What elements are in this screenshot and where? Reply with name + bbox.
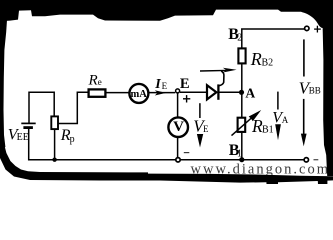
voltmeter V <box>168 117 188 137</box>
bottom rail <box>29 129 304 160</box>
svg-text:R: R <box>88 72 98 88</box>
scan artifact: top torn black band <box>0 0 333 28</box>
minus VE <box>184 152 190 153</box>
RB1 arrow <box>232 118 253 136</box>
bottom-right terminal ring <box>304 158 308 162</box>
minus bottom right <box>314 159 319 160</box>
wire node A up through RB2 to top rail and terminal <box>241 64 243 92</box>
svg-text:R: R <box>250 49 262 69</box>
svg-text:E: E <box>180 76 190 92</box>
battery VEE long plate <box>21 122 35 124</box>
diode cathode bar <box>217 84 219 99</box>
wire node E down to voltmeter <box>177 93 179 117</box>
wire RB1 bottom to bottom rail <box>241 133 243 160</box>
arrow above diode <box>200 69 226 72</box>
diode: triangle <box>207 85 216 99</box>
resistor RB1 (variable) <box>238 118 246 132</box>
junction dot B1-rail <box>239 157 244 162</box>
wire node E to diode <box>180 91 208 93</box>
svg-text:mA: mA <box>131 89 148 100</box>
resistor Rp <box>51 116 58 129</box>
wire diode cathode to node A <box>219 91 241 93</box>
svg-text:2: 2 <box>237 32 242 43</box>
svg-text:I: I <box>154 77 161 92</box>
wire mA meter to node E <box>149 92 175 94</box>
svg-text:V: V <box>173 119 184 135</box>
ring terminal voltmeter-rail <box>176 158 180 162</box>
ammeter mA <box>129 84 148 103</box>
top-right terminal ring <box>305 26 309 30</box>
plus top right <box>314 26 321 33</box>
wire battery top to Rp top <box>29 92 54 123</box>
svg-text:EE: EE <box>17 132 29 143</box>
node E terminal ring <box>176 89 180 93</box>
svg-text:e: e <box>98 77 102 87</box>
wire node A down to RB1 <box>241 92 243 117</box>
svg-text:A: A <box>245 85 255 100</box>
svg-text:E: E <box>162 81 168 91</box>
VBB arrow <box>303 39 305 76</box>
wire Rp bottom to rail <box>54 130 56 160</box>
wire Re to mA meter <box>105 92 129 94</box>
svg-text:B2: B2 <box>262 57 274 68</box>
junction dot Rp-rail <box>52 158 56 162</box>
plus VE <box>183 95 190 102</box>
svg-text:BB: BB <box>309 86 321 96</box>
scan artifact: left black strip <box>0 18 7 150</box>
battery VEE short plate <box>23 126 33 129</box>
VE arrow <box>199 103 201 118</box>
svg-text:A: A <box>282 115 289 125</box>
node A junction dot <box>239 90 244 95</box>
resistor Re <box>89 89 106 96</box>
wire Rp wiper to Re <box>58 92 88 123</box>
VA arrow <box>277 92 279 110</box>
scan artifact: bottom-left corner blob <box>0 143 333 184</box>
svg-text:p: p <box>70 134 75 145</box>
diode cathode hook <box>219 71 224 86</box>
svg-text:E: E <box>203 124 209 134</box>
wire voltmeter to bottom rail ring <box>177 138 179 159</box>
resistor RB2 <box>238 48 245 63</box>
scan artifact: right black column <box>323 24 333 176</box>
current arrow IE <box>155 90 166 95</box>
